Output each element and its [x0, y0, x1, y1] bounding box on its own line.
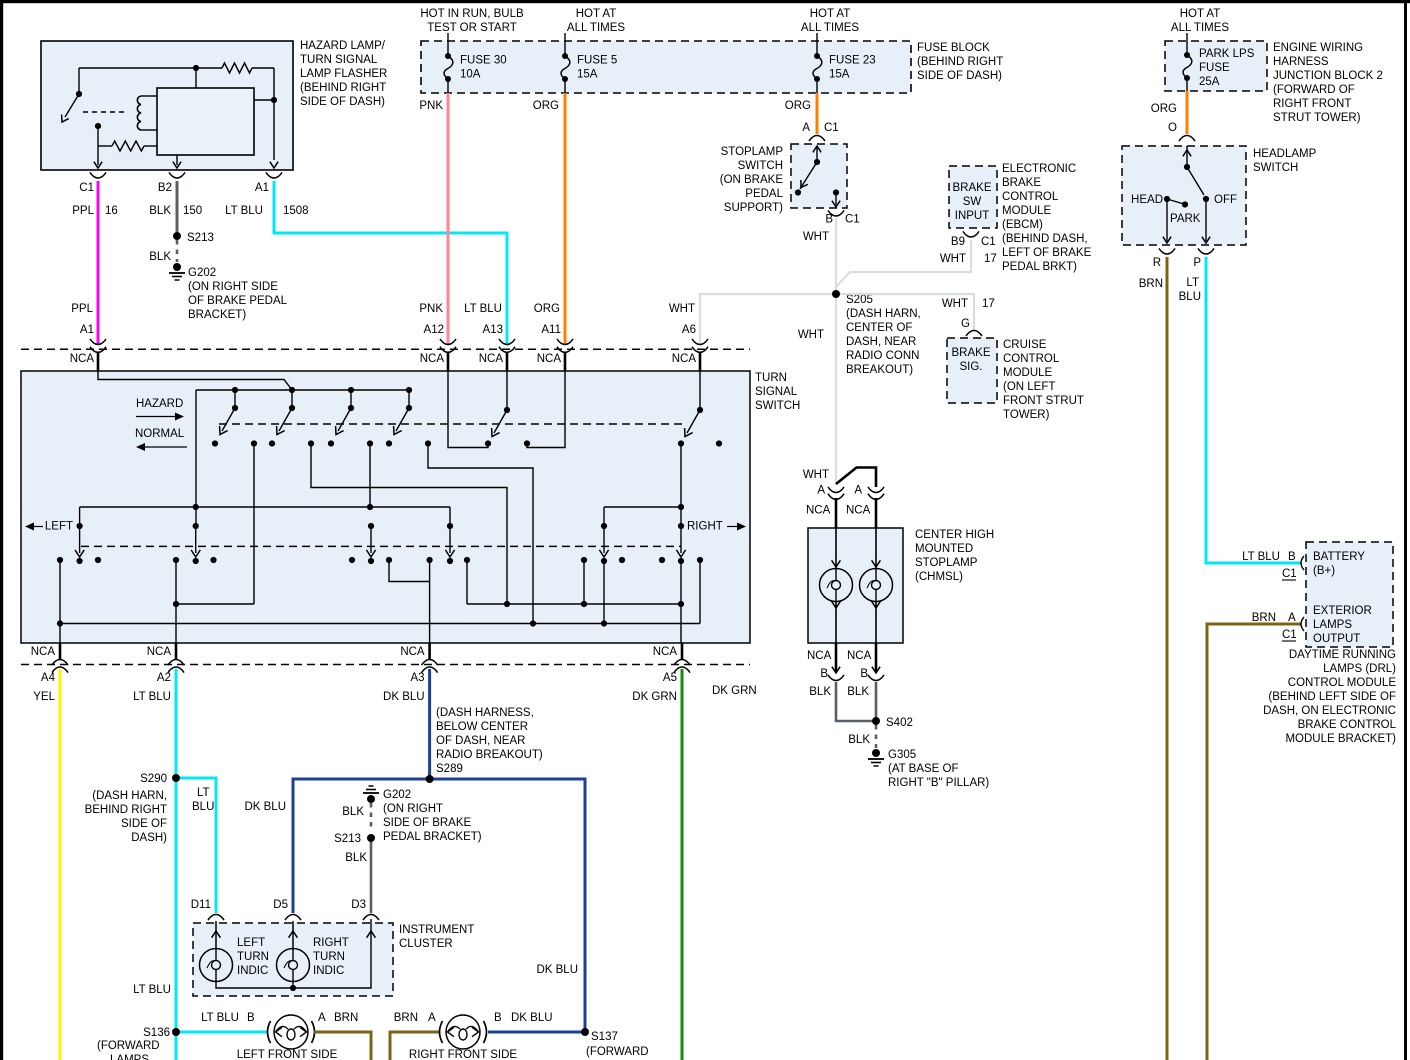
svg-text:SWITCH: SWITCH: [1253, 162, 1298, 174]
svg-text:NCA: NCA: [846, 505, 871, 517]
ground G305: [872, 749, 880, 757]
svg-text:LEFT OF BRAKE: LEFT OF BRAKE: [1002, 247, 1092, 259]
svg-text:C1: C1: [79, 182, 94, 194]
svg-text:BRN: BRN: [334, 1012, 358, 1024]
svg-text:DK BLU: DK BLU: [536, 964, 578, 976]
connector D5: [285, 915, 301, 921]
svg-text:TOWER): TOWER): [1003, 409, 1050, 421]
svg-text:BELOW CENTER: BELOW CENTER: [436, 721, 528, 733]
svg-text:FUSE 5: FUSE 5: [577, 55, 617, 67]
svg-text:BRN: BRN: [1252, 612, 1276, 624]
svg-text:SW: SW: [963, 196, 982, 208]
hazard row dashed line: [219, 423, 685, 425]
turn signal switch internal: A1 feed wire: [98, 371, 292, 390]
wire BLK from CHMSL right: [875, 682, 878, 721]
svg-text:SIDE OF: SIDE OF: [121, 818, 167, 830]
svg-text:RADIO BREAKOUT): RADIO BREAKOUT): [436, 749, 543, 761]
connector R of headlamp switch: [1159, 248, 1175, 254]
left front side marker lamp: [274, 1015, 308, 1049]
svg-text:NCA: NCA: [806, 505, 831, 517]
svg-text:WHT: WHT: [803, 231, 829, 243]
svg-text:LT BLU: LT BLU: [1242, 551, 1280, 563]
connector A3 out of turn signal switch: [428, 643, 431, 660]
wire ORG from fuse 23: [816, 93, 819, 134]
svg-text:OUTPUT: OUTPUT: [1313, 633, 1360, 645]
flasher switch dashed link: [83, 111, 128, 113]
svg-text:C1: C1: [824, 122, 839, 134]
svg-text:A: A: [318, 1012, 326, 1024]
long bottom link bus: [60, 623, 700, 625]
stoplamp switch output contact: [833, 189, 839, 195]
svg-text:LT BLU: LT BLU: [464, 303, 502, 315]
svg-text:S213: S213: [187, 232, 214, 244]
svg-text:DK BLU: DK BLU: [383, 691, 425, 703]
contact nodes row upper: [251, 440, 257, 446]
svg-text:C1: C1: [1282, 629, 1297, 641]
svg-text:HEADLAMP: HEADLAMP: [1253, 148, 1317, 160]
svg-text:25A: 25A: [1199, 76, 1220, 88]
svg-text:MOUNTED: MOUNTED: [915, 543, 973, 555]
left bus: [80, 506, 450, 508]
wire DK BLU S289 to S137: [430, 779, 585, 1032]
svg-text:A2: A2: [157, 672, 171, 684]
svg-text:ORG: ORG: [1151, 103, 1177, 115]
svg-text:DASH, NEAR: DASH, NEAR: [846, 336, 916, 348]
svg-text:NCA: NCA: [400, 646, 425, 658]
contact 584 link: [583, 560, 585, 604]
svg-text:RIGHT "B" PILLAR): RIGHT "B" PILLAR): [888, 777, 989, 789]
svg-text:BLK: BLK: [345, 852, 367, 864]
svg-text:NCA: NCA: [537, 353, 562, 365]
svg-text:A: A: [854, 485, 862, 497]
wire WHT stoplamp to S205: [835, 218, 837, 294]
svg-text:NCA: NCA: [807, 650, 832, 662]
svg-text:INDIC: INDIC: [237, 965, 268, 977]
svg-text:TEST OR START: TEST OR START: [427, 22, 516, 34]
svg-text:(BEHIND RIGHT: (BEHIND RIGHT: [300, 82, 386, 94]
svg-text:(DASH HARN,: (DASH HARN,: [846, 308, 921, 320]
wire DK GRN from A5: [681, 669, 684, 1060]
connector A13 into turn signal switch: [499, 339, 515, 345]
svg-text:BLK: BLK: [848, 734, 870, 746]
svg-text:17: 17: [984, 253, 997, 265]
svg-text:RIGHT FRONT: RIGHT FRONT: [1273, 98, 1351, 110]
A2 chain: [175, 560, 177, 643]
svg-text:MODULE: MODULE: [1002, 205, 1052, 217]
svg-text:SWITCH: SWITCH: [755, 400, 800, 412]
A11 lead inside switch: [527, 371, 565, 448]
page border frame: [0, 0, 1410, 3]
svg-text:CRUISE: CRUISE: [1003, 339, 1047, 351]
svg-text:BLU: BLU: [192, 801, 214, 813]
connector P of headlamp switch: [1198, 248, 1214, 254]
cluster ground return wire: [216, 919, 371, 988]
svg-text:15A: 15A: [577, 69, 598, 81]
svg-text:A: A: [1288, 612, 1296, 624]
wire ORG from fuse 5: [564, 93, 567, 345]
svg-text:G202: G202: [383, 789, 411, 801]
svg-text:NCA: NCA: [672, 353, 697, 365]
svg-text:G305: G305: [888, 749, 916, 761]
svg-text:STOPLAMP: STOPLAMP: [915, 557, 978, 569]
svg-text:FUSE: FUSE: [1199, 62, 1230, 74]
contact nodes row lower: [57, 557, 63, 563]
fuse 23 15A: [816, 33, 818, 56]
svg-text:BRAKE: BRAKE: [953, 182, 992, 194]
svg-text:(B+): (B+): [1313, 565, 1335, 577]
connector C1 of flasher: [90, 172, 106, 178]
svg-text:PPL: PPL: [72, 205, 94, 217]
svg-text:DK GRN: DK GRN: [632, 691, 677, 703]
svg-text:LAMP FLASHER: LAMP FLASHER: [300, 68, 387, 80]
svg-text:SIDE OF BRAKE: SIDE OF BRAKE: [383, 817, 472, 829]
park lps fuse 25A: [1186, 33, 1188, 55]
svg-text:PEDAL BRACKET): PEDAL BRACKET): [383, 831, 482, 843]
svg-text:A1: A1: [80, 324, 94, 336]
svg-text:C1: C1: [981, 236, 996, 248]
A12 lead inside switch: [448, 371, 488, 448]
svg-text:LAMPS: LAMPS: [110, 1054, 149, 1060]
wire PPL 16 from flasher C1: [97, 181, 100, 345]
svg-text:FUSE BLOCK: FUSE BLOCK: [917, 42, 990, 54]
headlamp switch blade: [1186, 146, 1188, 167]
svg-text:DAYTIME RUNNING: DAYTIME RUNNING: [1289, 649, 1396, 661]
svg-text:ALL TIMES: ALL TIMES: [567, 22, 625, 34]
svg-text:S290: S290: [140, 773, 167, 785]
svg-text:DK BLU: DK BLU: [511, 1012, 553, 1024]
wire BRN from headlamp R to exterior lamps: [1166, 257, 1169, 1060]
wire DK BLU S289 to cluster D5: [293, 779, 430, 913]
wire DK BLU from A3: [428, 669, 431, 779]
stoplamp switch blade: [816, 147, 818, 162]
left turn indicator bulb: [215, 921, 217, 949]
wire WHT S205 to cruise module: [836, 294, 974, 330]
svg-text:JUNCTION BLOCK 2: JUNCTION BLOCK 2: [1273, 70, 1383, 82]
contact 428 link jog: [428, 444, 533, 624]
svg-text:LAMPS: LAMPS: [1313, 619, 1352, 631]
center high mounted stoplamp box: [808, 528, 903, 643]
svg-text:S213: S213: [334, 833, 361, 845]
svg-text:BRN: BRN: [1139, 278, 1163, 290]
svg-text:B2: B2: [158, 182, 172, 194]
CHMSL bulb 1: [835, 528, 837, 569]
svg-text:150: 150: [183, 205, 202, 217]
svg-text:A3: A3: [411, 672, 425, 684]
svg-text:SUPPORT): SUPPORT): [724, 202, 783, 214]
hazard switch blade at x=351: [348, 387, 354, 393]
svg-text:SIDE OF DASH): SIDE OF DASH): [300, 96, 385, 108]
svg-text:(BEHIND LEFT SIDE OF: (BEHIND LEFT SIDE OF: [1268, 691, 1396, 703]
svg-text:SIDE OF DASH): SIDE OF DASH): [917, 70, 1002, 82]
svg-text:D11: D11: [191, 899, 211, 911]
A13 blade inside switch: [506, 371, 508, 410]
svg-text:A: A: [802, 122, 810, 134]
stoplamp switch connector B C1: [828, 210, 844, 216]
svg-text:17: 17: [982, 298, 995, 310]
connector B2 of flasher: [169, 172, 185, 178]
svg-text:PARK LPS: PARK LPS: [1199, 48, 1255, 60]
A3 chain: [389, 560, 430, 582]
svg-text:BLK: BLK: [342, 806, 364, 818]
splice S289 node: [426, 775, 434, 783]
svg-text:TURN: TURN: [237, 951, 269, 963]
svg-text:HAZARD LAMP/: HAZARD LAMP/: [300, 40, 386, 52]
connector A5 out of turn signal switch: [681, 643, 684, 660]
svg-text:LT BLU: LT BLU: [133, 691, 171, 703]
hazard switch blade at x=292: [289, 387, 295, 393]
svg-text:A13: A13: [483, 324, 503, 336]
splice S136 node: [172, 1028, 180, 1036]
svg-text:DASH, ON ELECTRONIC: DASH, ON ELECTRONIC: [1263, 705, 1396, 717]
svg-text:(ON LEFT: (ON LEFT: [1003, 381, 1055, 393]
svg-text:INPUT: INPUT: [955, 210, 990, 222]
blade 604 chain: [603, 561, 605, 624]
turn signal switch box: [21, 371, 750, 643]
svg-text:WHT: WHT: [942, 298, 968, 310]
svg-text:OFF: OFF: [1214, 194, 1237, 206]
svg-text:HEAD: HEAD: [1131, 194, 1163, 206]
wire WHT S205 down to CHMSL: [835, 294, 837, 485]
connector A12 into turn signal switch: [440, 339, 456, 345]
wire BLK S213 to cluster D3: [370, 838, 373, 913]
svg-text:B: B: [247, 1012, 255, 1024]
svg-text:A5: A5: [663, 672, 677, 684]
ground G202: [173, 263, 181, 271]
svg-text:HOT IN RUN, BULB: HOT IN RUN, BULB: [420, 8, 524, 20]
svg-text:DK GRN: DK GRN: [712, 685, 757, 697]
svg-text:HOT AT: HOT AT: [576, 8, 616, 20]
headlamp switch HEAD contact: [1164, 196, 1170, 202]
svg-text:A12: A12: [424, 324, 444, 336]
splice S402: [872, 717, 880, 725]
svg-text:BRAKE CONTROL: BRAKE CONTROL: [1298, 719, 1397, 731]
svg-text:P: P: [1193, 257, 1201, 269]
svg-text:CONTROL MODULE: CONTROL MODULE: [1288, 677, 1397, 689]
svg-text:SWITCH: SWITCH: [738, 160, 783, 172]
headlamp switch box: [1122, 146, 1246, 245]
svg-text:TURN: TURN: [755, 372, 787, 384]
connector A2 out of turn signal switch: [175, 643, 178, 660]
svg-text:STRUT TOWER): STRUT TOWER): [1273, 112, 1361, 124]
svg-text:PEDAL BRKT): PEDAL BRKT): [1002, 261, 1077, 273]
svg-text:B9: B9: [951, 236, 965, 248]
fuse 5 15A: [564, 33, 566, 56]
fuse block box: [421, 41, 911, 93]
svg-text:D3: D3: [351, 899, 366, 911]
hazard switch blade at x=235: [232, 387, 238, 393]
svg-text:NCA: NCA: [31, 646, 56, 658]
A6 chain down to RIGHT pivot: [680, 444, 682, 527]
svg-text:ENGINE WIRING: ENGINE WIRING: [1273, 42, 1363, 54]
svg-text:ELECTRONIC: ELECTRONIC: [1002, 163, 1076, 175]
flasher A1 lead arrow: [270, 162, 278, 168]
svg-text:EXTERIOR: EXTERIOR: [1313, 605, 1372, 617]
svg-text:NCA: NCA: [70, 353, 95, 365]
svg-text:ORG: ORG: [785, 100, 811, 112]
flasher node to C1: [95, 123, 101, 129]
svg-text:(ON RIGHT SIDE: (ON RIGHT SIDE: [188, 281, 278, 293]
svg-text:B: B: [1288, 551, 1296, 563]
svg-text:CENTER OF: CENTER OF: [846, 322, 912, 334]
connector row NCA bottom dashed line: [21, 664, 750, 666]
flasher internal wire top: [79, 67, 222, 69]
splice S290 node: [172, 774, 180, 782]
svg-text:G: G: [961, 318, 970, 330]
svg-text:(DASH HARNESS,: (DASH HARNESS,: [436, 707, 534, 719]
svg-text:HARNESS: HARNESS: [1273, 56, 1329, 68]
svg-text:LEFT FRONT SIDE: LEFT FRONT SIDE: [237, 1049, 338, 1060]
lower dashed line: [81, 545, 681, 547]
svg-text:R: R: [1153, 257, 1161, 269]
wire BRN to right front side marker: [390, 1032, 440, 1060]
wire LT BLU 1508 from flasher A1: [274, 181, 507, 345]
svg-text:CLUSTER: CLUSTER: [399, 938, 453, 950]
contact 467 link: [466, 560, 468, 604]
svg-text:INSTRUMENT: INSTRUMENT: [399, 924, 474, 936]
A6 blade inside switch: [699, 371, 701, 410]
svg-text:LT BLU: LT BLU: [133, 984, 171, 996]
svg-text:PNK: PNK: [419, 303, 443, 315]
svg-text:RIGHT: RIGHT: [313, 937, 349, 949]
connector A6 into turn signal switch: [692, 339, 708, 345]
svg-text:FRONT STRUT: FRONT STRUT: [1003, 395, 1084, 407]
svg-text:A: A: [817, 485, 825, 497]
wire black split to CHMSL right feed: [836, 468, 876, 488]
connector D3: [363, 915, 379, 921]
svg-text:16: 16: [105, 205, 118, 217]
stoplamp switch box: [791, 144, 847, 208]
EBCM brake switch input box: [949, 166, 997, 228]
A4 chain: [59, 560, 61, 643]
svg-text:A: A: [428, 1012, 436, 1024]
CHMSL bulb 2: [875, 528, 877, 569]
svg-text:BLK: BLK: [149, 205, 171, 217]
svg-text:DASH): DASH): [131, 832, 167, 844]
svg-text:BLK: BLK: [809, 686, 831, 698]
svg-text:B: B: [820, 668, 828, 680]
svg-text:RADIO CONN: RADIO CONN: [846, 350, 919, 362]
svg-text:INDIC: INDIC: [313, 965, 344, 977]
selector pivots and blades lower row: [77, 523, 83, 529]
hazard bus riser to left bus: [195, 390, 197, 526]
svg-text:LT: LT: [197, 787, 210, 799]
svg-text:LAMPS (DRL): LAMPS (DRL): [1323, 663, 1396, 675]
svg-text:HOT AT: HOT AT: [810, 8, 850, 20]
svg-text:C1: C1: [1282, 568, 1297, 580]
svg-text:LEFT: LEFT: [45, 521, 73, 533]
svg-text:FUSE 23: FUSE 23: [829, 55, 876, 67]
fuse 30 10A: [447, 33, 449, 56]
wire ORG from park lps fuse: [1186, 91, 1189, 134]
svg-text:S136: S136: [143, 1027, 170, 1039]
svg-text:(BEHIND DASH,: (BEHIND DASH,: [1002, 233, 1088, 245]
svg-text:(EBCM): (EBCM): [1002, 219, 1043, 231]
right front side marker lamp: [446, 1015, 480, 1049]
wire BLK 150 from flasher B2: [176, 181, 179, 236]
svg-text:WHT: WHT: [940, 253, 966, 265]
wire PNK from fuse 30: [447, 93, 450, 345]
svg-text:HOT AT: HOT AT: [1180, 8, 1220, 20]
wire LT BLU S290 branch to cluster D11: [176, 778, 216, 913]
flasher B2 lead: [176, 155, 178, 165]
svg-text:ORG: ORG: [534, 303, 560, 315]
DRL control module box: [1306, 542, 1393, 647]
svg-text:HAZARD: HAZARD: [136, 398, 183, 410]
svg-text:BRN: BRN: [394, 1012, 418, 1024]
svg-text:(ON BRAKE: (ON BRAKE: [720, 174, 784, 186]
svg-text:BRAKE: BRAKE: [1002, 177, 1041, 189]
wire LT BLU from A2: [175, 669, 178, 1060]
svg-text:(DASH HARN,: (DASH HARN,: [92, 790, 167, 802]
svg-text:O: O: [1168, 122, 1177, 134]
wire LT BLU from headlamp P to DRL battery input: [1206, 257, 1301, 563]
svg-text:(ON RIGHT: (ON RIGHT: [383, 803, 443, 815]
connector A1 of flasher: [266, 172, 282, 178]
svg-text:S402: S402: [886, 717, 913, 729]
node flasher right: [271, 97, 277, 103]
svg-text:TURN SIGNAL: TURN SIGNAL: [300, 54, 378, 66]
EBCM connector B9 C1: [963, 231, 979, 237]
headlamp switch HEAD output lead: [1166, 202, 1168, 241]
headlamp switch OFF output lead: [1205, 202, 1207, 241]
connector A4 out of turn signal switch: [59, 643, 62, 660]
right bus: [604, 506, 681, 508]
svg-text:B: B: [825, 214, 833, 226]
hazard switch blade at x=409: [406, 387, 412, 393]
hazard lamp / turn signal lamp flasher module box: [41, 41, 293, 170]
svg-text:(FORWARD: (FORWARD: [97, 1040, 160, 1052]
svg-text:BLK: BLK: [847, 686, 869, 698]
contact 311 link jog: [311, 444, 507, 605]
svg-text:15A: 15A: [829, 69, 850, 81]
svg-text:MODULE BRACKET): MODULE BRACKET): [1285, 733, 1396, 745]
svg-text:(FORWARD: (FORWARD: [586, 1046, 649, 1058]
contact 254 link to A2 node: [253, 444, 255, 605]
connector A1 into turn signal switch: [90, 339, 106, 345]
connector row NCA top dashed line: [21, 348, 750, 350]
contact 370 link to left bus: [369, 444, 371, 508]
svg-text:LT BLU: LT BLU: [225, 205, 263, 217]
svg-text:RIGHT: RIGHT: [687, 521, 723, 533]
svg-text:PARK: PARK: [1170, 213, 1201, 225]
svg-text:A6: A6: [682, 324, 696, 336]
A5 chain from RIGHT blade: [680, 561, 682, 643]
svg-text:ALL TIMES: ALL TIMES: [1171, 22, 1229, 34]
wire WHT EBCM to S205: [836, 240, 971, 294]
svg-text:BEHIND RIGHT: BEHIND RIGHT: [85, 804, 167, 816]
wire WHT S205 to turn signal switch A6: [700, 294, 836, 345]
svg-text:(CHMSL): (CHMSL): [915, 571, 963, 583]
svg-text:NCA: NCA: [147, 646, 172, 658]
svg-text:WHT: WHT: [803, 469, 829, 481]
splice S213: [176, 240, 179, 262]
svg-text:TURN: TURN: [313, 951, 345, 963]
svg-text:OF DASH, NEAR: OF DASH, NEAR: [436, 735, 525, 747]
svg-text:LT BLU: LT BLU: [201, 1012, 239, 1024]
svg-text:CONTROL: CONTROL: [1002, 191, 1059, 203]
svg-text:PPL: PPL: [71, 303, 93, 315]
svg-text:MODULE: MODULE: [1003, 367, 1053, 379]
svg-text:G202: G202: [188, 267, 216, 279]
svg-text:(BEHIND RIGHT: (BEHIND RIGHT: [917, 56, 1003, 68]
svg-text:BLK: BLK: [149, 251, 171, 263]
svg-text:NCA: NCA: [479, 353, 504, 365]
svg-text:NORMAL: NORMAL: [135, 428, 185, 440]
connector A11 into turn signal switch: [557, 339, 573, 345]
flasher relay coil: [137, 96, 141, 130]
svg-text:FUSE 30: FUSE 30: [460, 55, 507, 67]
svg-text:NCA: NCA: [847, 650, 872, 662]
